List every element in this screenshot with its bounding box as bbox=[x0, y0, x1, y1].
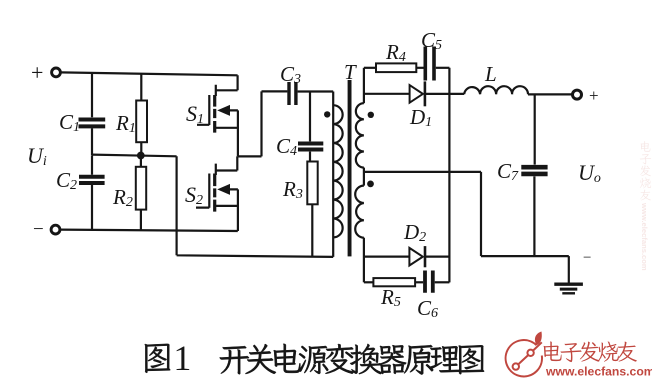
wire node-row corner down to bottom return rail bbox=[177, 156, 334, 257]
svg-text:S2: S2 bbox=[185, 182, 203, 208]
watermark right edge bbox=[640, 141, 651, 271]
svg-text:R4: R4 bbox=[385, 40, 406, 65]
diode D2 bbox=[364, 246, 450, 267]
svg-text:C4: C4 bbox=[276, 134, 297, 159]
svg-text:R3: R3 bbox=[282, 177, 303, 202]
svg-text:C6: C6 bbox=[417, 296, 438, 321]
resistor R4 bbox=[364, 63, 424, 72]
svg-text:R2: R2 bbox=[112, 185, 133, 210]
node junction dot R1/R2 bbox=[137, 152, 145, 160]
node primary polarity dot bbox=[324, 111, 330, 117]
svg-text:C2: C2 bbox=[56, 168, 77, 193]
wire minus rail to S2 source bbox=[60, 230, 238, 231]
svg-text:T: T bbox=[344, 60, 357, 84]
wire centre tap to ground rail bbox=[364, 172, 569, 256]
resistor R5 bbox=[364, 278, 423, 286]
resistor R1 bbox=[136, 74, 147, 156]
svg-text:C1: C1 bbox=[59, 110, 80, 135]
svg-text:+: + bbox=[589, 86, 599, 105]
wire node row (C1/C2 junction to down-corner) bbox=[92, 155, 177, 157]
inductor secondary lower winding of T bbox=[355, 186, 364, 283]
node plus-input terminal bbox=[52, 68, 61, 77]
wire L to + output terminal bbox=[528, 93, 573, 95]
svg-text:C5: C5 bbox=[421, 28, 442, 53]
svg-text:R1: R1 bbox=[115, 111, 136, 136]
capacitor C4 bbox=[298, 92, 323, 162]
wire top rail from + terminal to S1 drain corner bbox=[61, 72, 238, 75]
caption figure title bbox=[145, 338, 484, 378]
svg-text:www.elecfans.com: www.elecfans.com bbox=[640, 202, 649, 271]
svg-text:S1: S1 bbox=[186, 101, 204, 127]
inductor primary winding of T bbox=[333, 92, 342, 257]
diode D1 bbox=[364, 81, 464, 106]
svg-text:1: 1 bbox=[173, 338, 191, 378]
svg-text:C7: C7 bbox=[497, 159, 519, 184]
logo elecfans chinese text bbox=[544, 341, 637, 362]
wire half-bridge midpoint bbox=[238, 155, 262, 157]
svg-text:Uo: Uo bbox=[578, 160, 601, 186]
svg-text:C3: C3 bbox=[280, 62, 301, 87]
inductor secondary upper winding of T bbox=[356, 68, 364, 186]
node secondary upper polarity dot bbox=[368, 112, 374, 118]
transistor Q S2 (MOSFET) bbox=[196, 156, 238, 231]
node minus-input terminal bbox=[51, 225, 60, 234]
capacitor C5 bbox=[425, 47, 449, 81]
svg-text:L: L bbox=[484, 62, 497, 86]
node secondary lower polarity dot bbox=[367, 181, 374, 188]
svg-text:R5: R5 bbox=[380, 285, 401, 310]
transistor Q S1 (MOSFET) bbox=[197, 75, 238, 156]
svg-text:Ui: Ui bbox=[27, 143, 47, 169]
svg-text:D2: D2 bbox=[403, 220, 426, 245]
resistor R2 bbox=[136, 156, 146, 231]
wire snubber bus (right vertical) bbox=[448, 68, 450, 283]
logo elecfans icon bbox=[506, 332, 542, 377]
inductor L bbox=[464, 86, 528, 94]
svg-text:−: − bbox=[33, 219, 44, 240]
transformer T core bbox=[348, 80, 352, 256]
capacitor C3 bbox=[289, 82, 296, 105]
svg-text:www.elecfans.com: www.elecfans.com bbox=[545, 365, 652, 379]
wire C3 to transformer primary top bbox=[298, 90, 334, 92]
resistor R3 bbox=[307, 162, 317, 257]
svg-text:D1: D1 bbox=[409, 105, 432, 130]
capacitor C7 bbox=[521, 94, 547, 256]
capacitor C1 bbox=[79, 73, 106, 155]
node plus-output terminal bbox=[573, 90, 582, 99]
ground bbox=[554, 256, 583, 293]
svg-text:+: + bbox=[31, 60, 43, 85]
svg-text:−: − bbox=[583, 250, 591, 266]
capacitor C2 bbox=[79, 155, 105, 229]
wire midpoint riser to C3 bbox=[262, 91, 288, 156]
capacitor C6 bbox=[425, 271, 449, 293]
